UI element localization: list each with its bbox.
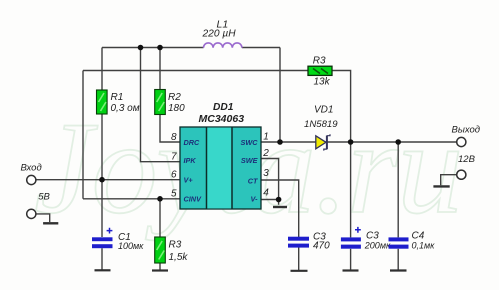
ground T-bar C1: [95, 269, 111, 271]
terminal input +: [27, 175, 36, 184]
wire C1 lead bottom: [101, 248, 103, 270]
wire diode to output: [325, 141, 456, 143]
capacitor C3 470: [288, 232, 330, 252]
terminal input -: [27, 209, 36, 218]
IC DD1 MC34063: [180, 102, 261, 209]
svg-text:220 µH: 220 µH: [202, 29, 237, 40]
svg-text:5В: 5В: [38, 191, 50, 202]
svg-text:0,3 ом: 0,3 ом: [111, 103, 140, 114]
svg-text:CT: CT: [248, 177, 258, 186]
svg-text:3: 3: [263, 168, 269, 179]
ground T-bar C3 200mk: [343, 269, 359, 271]
wire C4 column: [397, 142, 399, 237]
junction node pin2 pin4: [276, 197, 282, 203]
ground T-bar C3 470: [291, 270, 308, 272]
ground bar output chassis: [433, 185, 449, 187]
wire C4 lead bottom: [397, 249, 399, 270]
junction node top rail pin7: [138, 45, 144, 51]
wire pin7 from top rail: [141, 48, 181, 162]
wire top rail left of L1: [102, 47, 204, 49]
svg-text:R3: R3: [169, 240, 182, 251]
wire input to pin6: [36, 179, 180, 181]
svg-text:CINV: CINV: [184, 195, 203, 204]
svg-text:R3: R3: [313, 55, 326, 66]
svg-text:5: 5: [171, 189, 177, 200]
svg-text:0,1мк: 0,1мк: [412, 241, 436, 251]
svg-text:4: 4: [263, 187, 269, 198]
wire SWC drop column: [279, 48, 281, 143]
svg-text:1N5819: 1N5819: [304, 119, 338, 130]
wire feedback rail y70: [83, 70, 308, 72]
wire top rail right of L1: [242, 47, 280, 49]
resistor R2: [155, 90, 185, 115]
svg-text:IPK: IPK: [184, 156, 197, 165]
resistor R3 13k: [308, 55, 332, 87]
wire C3 200mk lead bottom: [350, 249, 352, 270]
resistor R1: [97, 90, 140, 114]
wire pin5: [83, 198, 180, 200]
svg-text:MC34063: MC34063: [199, 113, 245, 125]
resistor R3 1.5k: [155, 237, 189, 263]
svg-text:DRC: DRC: [184, 138, 201, 147]
wire R1 column: [101, 48, 103, 238]
capacitor C1: [92, 228, 144, 251]
svg-text:1: 1: [263, 132, 269, 143]
capacitor C4: [389, 230, 436, 250]
ground bar input chassis: [43, 222, 58, 224]
svg-text:R1: R1: [111, 92, 124, 103]
ground bar pin4: [273, 206, 287, 208]
wire R3 1.5k column: [159, 199, 161, 270]
svg-text:SWC: SWC: [240, 138, 258, 147]
inductor L1: [204, 43, 242, 48]
wire feedback left column: [82, 71, 84, 199]
svg-text:SWE: SWE: [241, 156, 259, 165]
junction node output R3: [348, 139, 354, 145]
diode VD1 1N5819: [304, 104, 338, 150]
svg-text:13k: 13k: [314, 77, 331, 88]
wire output lower terminal chassis: [441, 175, 457, 186]
wire pin4: [261, 200, 279, 205]
svg-text:Вход: Вход: [21, 162, 42, 173]
svg-text:12В: 12В: [458, 154, 476, 165]
junction node output C4: [395, 139, 401, 145]
svg-text:470: 470: [313, 241, 330, 252]
wire input lower terminal chassis: [36, 214, 50, 222]
svg-text:100мк: 100мк: [118, 241, 144, 251]
capacitor C3 200mk: [341, 227, 391, 251]
svg-text:1,5k: 1,5k: [169, 252, 189, 263]
ground T-bar C4: [390, 269, 407, 271]
wire R3 13k right lead down: [332, 71, 351, 143]
svg-text:2: 2: [262, 148, 269, 159]
svg-text:6: 6: [171, 169, 177, 180]
svg-text:Выход: Выход: [452, 125, 481, 136]
wire R2 column to pin8: [160, 48, 180, 143]
svg-text:200мк: 200мк: [364, 241, 391, 251]
ground T-bar R3 1.5k: [152, 269, 168, 271]
junction node top rail R2: [157, 45, 163, 51]
svg-text:V+: V+: [184, 175, 194, 184]
terminal output +: [457, 137, 466, 146]
junction node pin5 R3: [157, 196, 163, 202]
wire C3 470 lead bottom: [298, 248, 300, 271]
wire C3 200mk column: [350, 142, 352, 237]
wire pin1 to diode: [261, 141, 316, 143]
svg-text:VD1: VD1: [314, 104, 333, 115]
svg-text:7: 7: [171, 151, 177, 162]
svg-text:8: 8: [171, 132, 177, 143]
wire pin2 to pin4: [261, 159, 279, 200]
svg-text:V-: V-: [250, 195, 258, 204]
wire pin3 to C3: [261, 180, 299, 237]
svg-text:180: 180: [168, 103, 185, 114]
junction node pin1: [277, 139, 283, 145]
terminal output -: [457, 170, 466, 179]
svg-text:DD1: DD1: [213, 102, 234, 113]
junction node input R1: [99, 177, 105, 183]
svg-text:R2: R2: [168, 92, 181, 103]
